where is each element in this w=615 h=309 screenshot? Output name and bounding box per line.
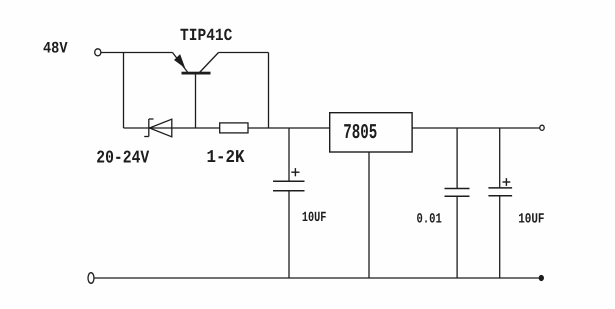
wire bottom rail — [94, 277, 540, 279]
wire capacitor C2 bottom lead — [456, 196, 458, 278]
wire collector branch down — [268, 53, 270, 129]
capacitor C2 plates — [445, 189, 470, 197]
resistor R1 — [220, 123, 248, 133]
polarity plus for C1 — [291, 168, 299, 176]
wire U1 ground lead — [368, 152, 370, 278]
wire top rail left segment — [101, 52, 173, 54]
wire capacitor C1 bottom lead — [288, 191, 290, 278]
regulator U1 7805 box — [330, 113, 412, 152]
svg-text:10UF: 10UF — [302, 210, 327, 226]
svg-text:20-24V: 20-24V — [96, 149, 149, 169]
capacitor C1 plates — [273, 181, 305, 191]
zener diode D1 — [144, 119, 172, 137]
bottom-right terminal — [539, 275, 543, 280]
wire base lead down — [195, 75, 197, 129]
wire capacitor C3 bottom lead — [499, 196, 501, 278]
bottom-left terminal — [88, 273, 94, 284]
input terminal — [95, 49, 101, 56]
svg-text:7805: 7805 — [343, 122, 377, 145]
wire middle row — [124, 127, 331, 129]
svg-text:10UF: 10UF — [518, 212, 544, 228]
svg-text:0.01: 0.01 — [417, 212, 442, 228]
svg-text:1-2K: 1-2K — [207, 148, 245, 168]
svg-text:TIP41C: TIP41C — [180, 27, 232, 46]
wire top rail right segment — [219, 52, 269, 54]
svg-text:48V: 48V — [43, 40, 68, 58]
wire left branch down to zener row — [123, 53, 125, 129]
polarity plus for C3 — [503, 178, 511, 186]
wire capacitor C1 top lead — [288, 128, 290, 181]
wire capacitor C2 top lead — [456, 128, 458, 188]
wire output rail — [412, 127, 540, 129]
wire capacitor C3 top lead — [499, 128, 501, 188]
output terminal — [540, 125, 544, 130]
transistor Q1 TIP41C — [173, 53, 219, 75]
capacitor C3 plates — [488, 188, 512, 196]
